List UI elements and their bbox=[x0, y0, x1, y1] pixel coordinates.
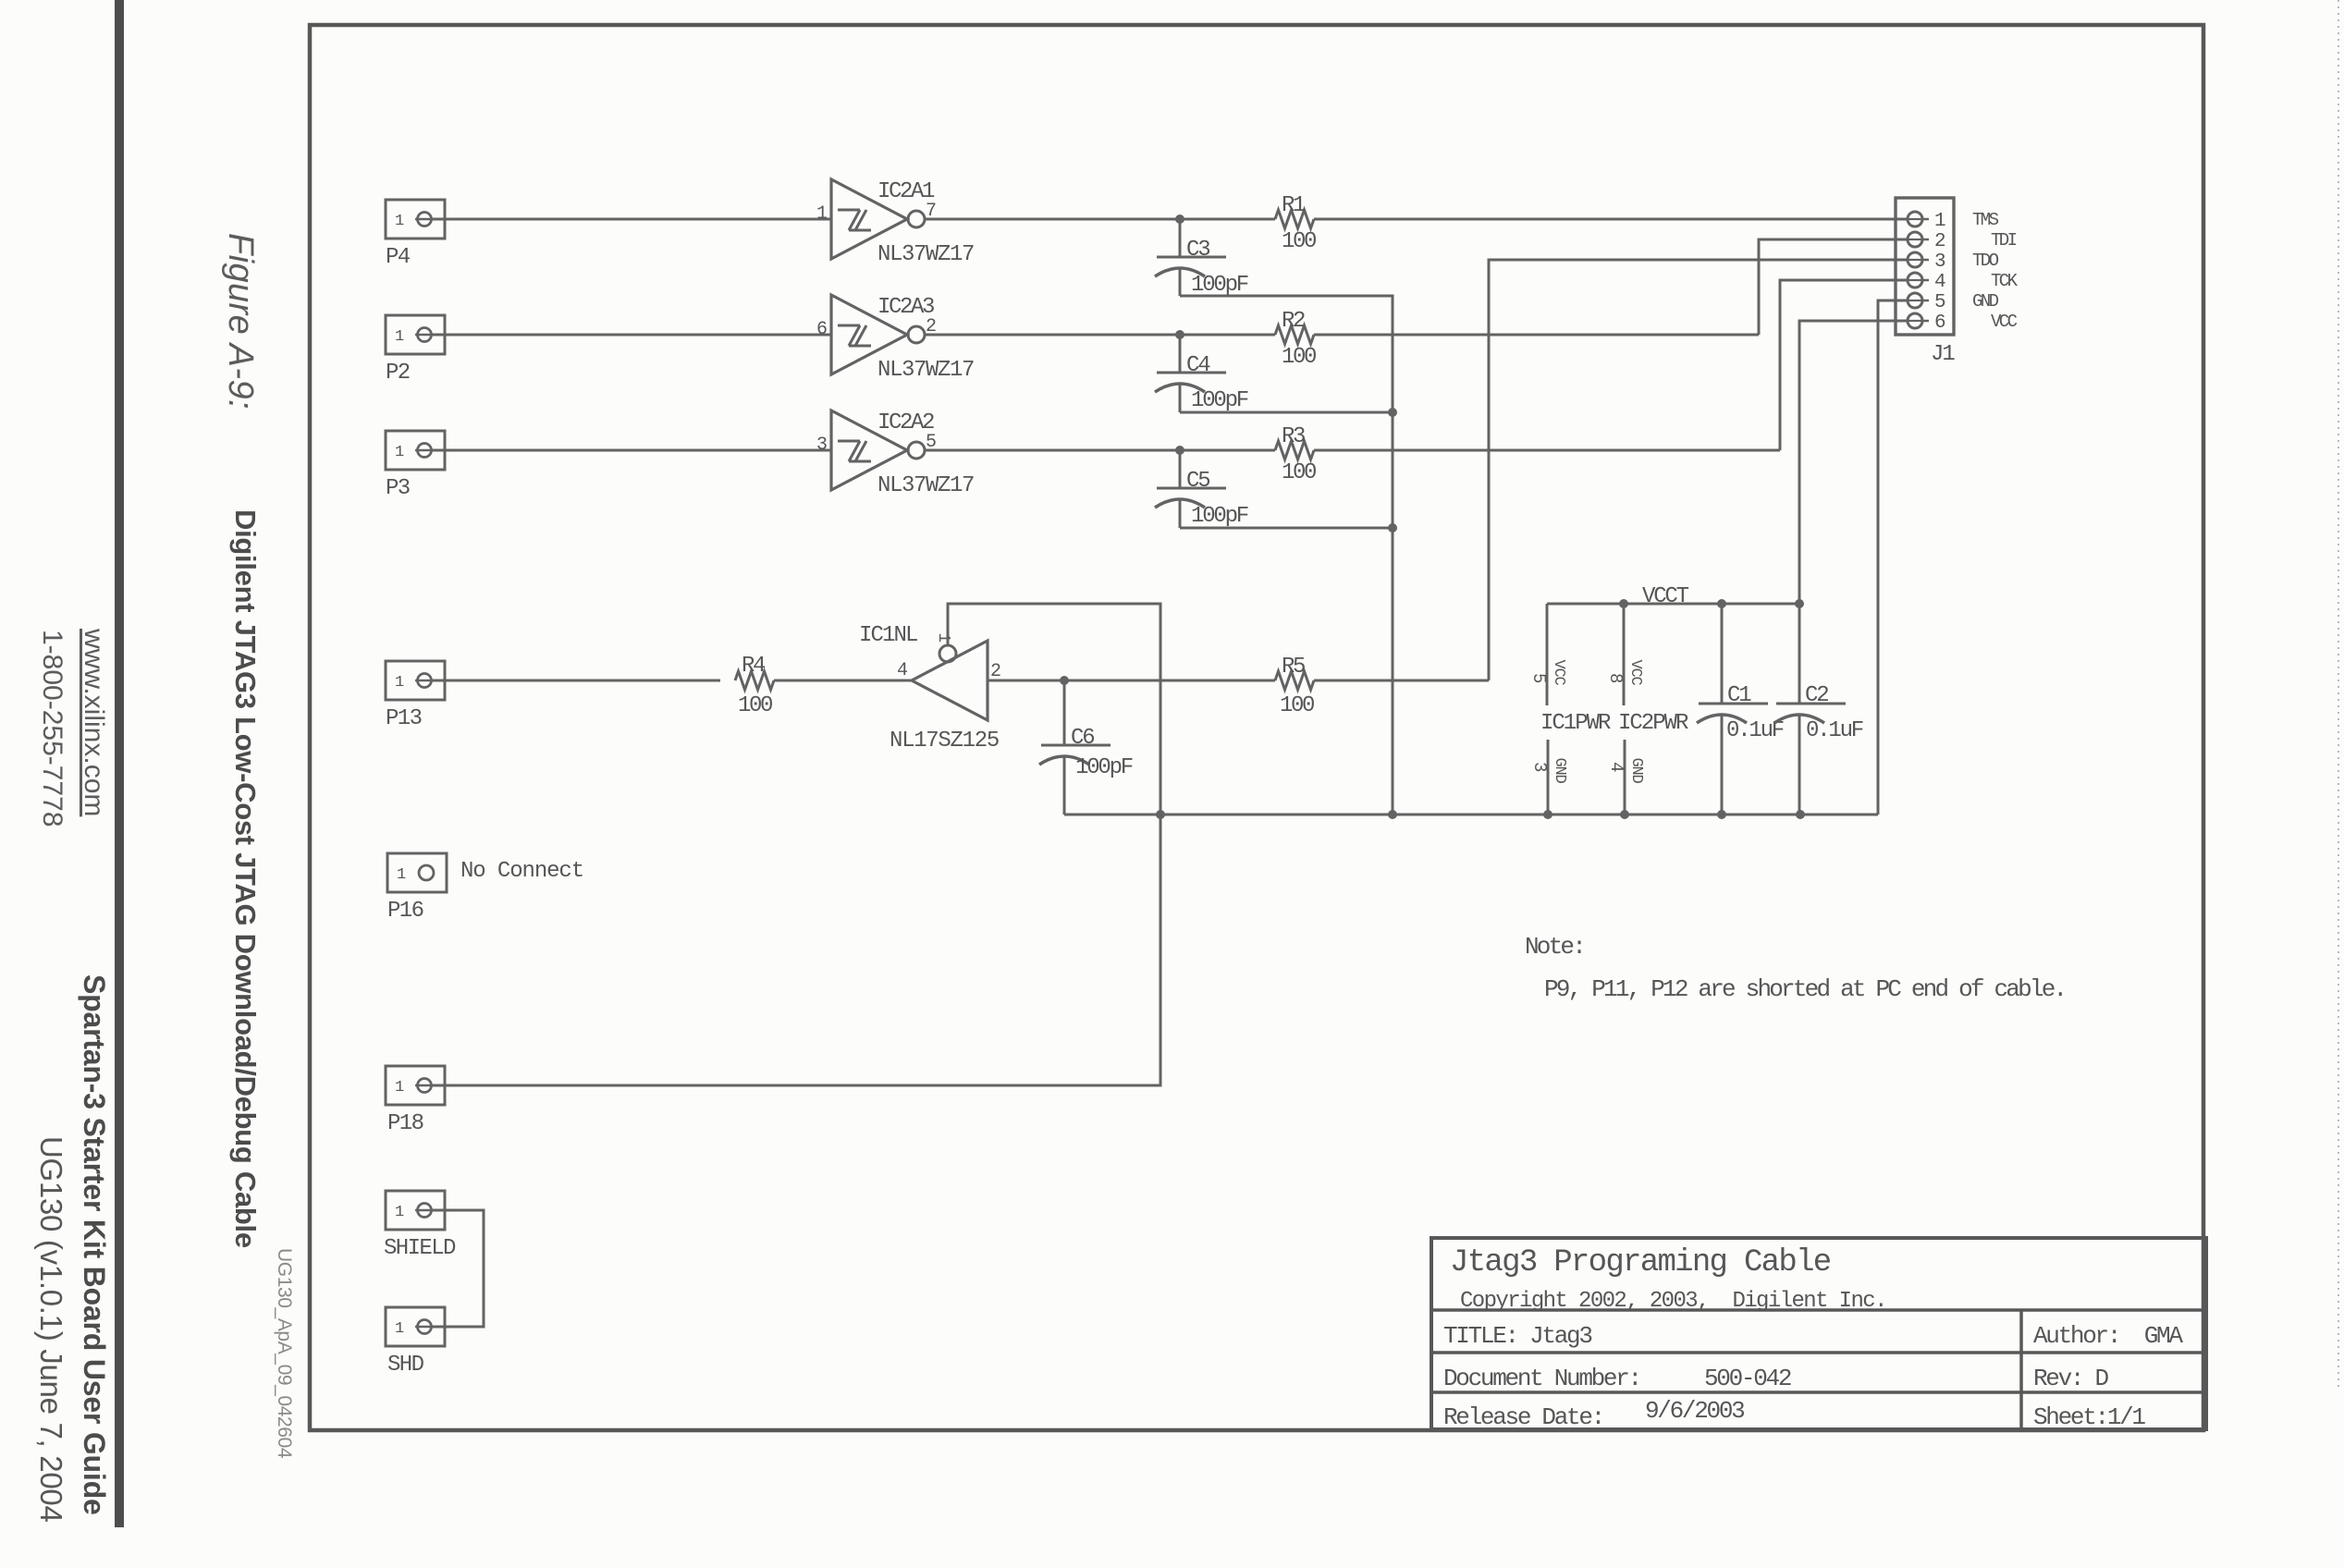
svg-text:R5: R5 bbox=[1282, 655, 1305, 680]
svg-text:P2: P2 bbox=[386, 361, 410, 386]
svg-text:100: 100 bbox=[1282, 345, 1316, 370]
wire IC2A2 output to R3 to J1 pin4 bbox=[925, 449, 1275, 452]
connector P13 bbox=[386, 661, 445, 700]
svg-text:1: 1 bbox=[397, 866, 406, 884]
svg-text:IC1NL: IC1NL bbox=[859, 623, 917, 648]
wire C4 bottom to bus bbox=[1180, 411, 1393, 414]
svg-text:R2: R2 bbox=[1282, 309, 1305, 334]
wire P2 to IC2A3 input bbox=[433, 334, 831, 337]
figure caption: title bold bbox=[228, 509, 262, 1248]
svg-text:No Connect: No Connect bbox=[460, 859, 583, 884]
wire C3 bottom to bus bbox=[1180, 296, 1393, 815]
svg-text:VCC: VCC bbox=[1550, 659, 1567, 685]
svg-text:C1: C1 bbox=[1727, 683, 1751, 708]
svg-text:P18: P18 bbox=[387, 1111, 423, 1136]
svg-text:TDO: TDO bbox=[1972, 251, 1999, 271]
svg-text:Jtag3 Programing Cable: Jtag3 Programing Cable bbox=[1450, 1245, 1831, 1280]
junction node C3/R1 bbox=[1175, 214, 1184, 224]
left margin rule bar bbox=[115, 0, 124, 1527]
J1 pin 6 bbox=[1901, 320, 1929, 323]
svg-text:NL37WZ17: NL37WZ17 bbox=[877, 358, 974, 383]
capacitor C2 0.1uF bbox=[1798, 604, 1801, 704]
wire IC1NL output to R5 bbox=[988, 680, 1275, 682]
power symbol IC2PWR vcc pin 8 bbox=[1623, 604, 1626, 705]
svg-text:Copyright 2002, 2003, Digilen: Copyright 2002, 2003, Digilent Inc. bbox=[1460, 1289, 1886, 1314]
junction gnd/C1 bbox=[1717, 810, 1726, 819]
header phone 1-800-255-7778 bbox=[36, 630, 67, 827]
svg-text:VCCT: VCCT bbox=[1642, 584, 1689, 609]
figure caption: Figure A-9 bbox=[220, 233, 260, 410]
buffer IC1NL NL17SZ125 bbox=[912, 641, 988, 720]
svg-text:4: 4 bbox=[1606, 762, 1626, 772]
svg-text:IC2A1: IC2A1 bbox=[877, 179, 935, 204]
wire SHIELD to SHD bbox=[433, 1210, 484, 1327]
J1 pin 5 bbox=[1901, 300, 1929, 302]
svg-text:8: 8 bbox=[1605, 673, 1626, 683]
svg-text:SHD: SHD bbox=[387, 1353, 424, 1378]
svg-text:Release Date:: Release Date: bbox=[1443, 1403, 1603, 1431]
svg-text:C5: C5 bbox=[1186, 469, 1209, 494]
svg-text:100pF: 100pF bbox=[1075, 755, 1133, 780]
connector P16 (no connect) bbox=[387, 853, 447, 892]
buffer IC2A3 NL37WZ17 bbox=[831, 295, 907, 374]
ground bus wire bbox=[1064, 814, 1878, 816]
connector J1 bbox=[1896, 198, 1954, 335]
svg-text:Rev: D: Rev: D bbox=[2033, 1365, 2109, 1392]
connector P2 bbox=[386, 315, 445, 354]
power symbol IC2PWR gnd pin 4 bbox=[1624, 740, 1626, 815]
svg-text:3: 3 bbox=[1529, 762, 1550, 772]
svg-text:5: 5 bbox=[1934, 292, 1945, 313]
footer: UG130 (v1.0.1) June 7, 2004 bbox=[33, 1136, 68, 1523]
svg-text:Document Number:: Document Number: bbox=[1443, 1365, 1640, 1392]
J1 pin 3 bbox=[1901, 259, 1929, 262]
svg-text:1: 1 bbox=[395, 1320, 404, 1338]
svg-text:IC2PWR: IC2PWR bbox=[1618, 711, 1688, 736]
svg-text:R3: R3 bbox=[1282, 424, 1305, 449]
wire C5 bottom to bus bbox=[1180, 527, 1393, 530]
svg-text:C3: C3 bbox=[1186, 238, 1209, 263]
svg-text:3: 3 bbox=[816, 435, 827, 456]
power symbol IC1PWR vcc pin 5 bbox=[1546, 604, 1549, 705]
junction C4 bus bbox=[1388, 408, 1397, 417]
svg-text:P9, P11, P12 are shorted at PC: P9, P11, P12 are shorted at PC end of ca… bbox=[1544, 975, 2065, 1003]
connector P4 bbox=[386, 200, 445, 239]
J1 pin 4 bbox=[1901, 279, 1929, 282]
svg-text:1: 1 bbox=[395, 674, 404, 692]
svg-text:4: 4 bbox=[897, 660, 907, 681]
svg-text:TDI: TDI bbox=[1991, 230, 2017, 251]
power symbol IC1PWR gnd pin 3 bbox=[1547, 740, 1550, 815]
wire P13 to R4 bbox=[433, 680, 720, 682]
connector SHD bbox=[386, 1307, 445, 1346]
svg-text:GND: GND bbox=[1627, 757, 1645, 783]
svg-text:Author: GMA: Author: GMA bbox=[2033, 1322, 2183, 1350]
svg-text:TCK: TCK bbox=[1991, 271, 2019, 291]
svg-text:P3: P3 bbox=[386, 476, 410, 501]
svg-text:P4: P4 bbox=[386, 245, 411, 270]
resistor R1 100 bbox=[1275, 210, 1314, 228]
junction gnd/IC1PWR bbox=[1543, 810, 1552, 819]
svg-text:6: 6 bbox=[1934, 312, 1945, 334]
junction node C6 top bbox=[1060, 676, 1069, 685]
wire IC2A1 output to R1 to J1 pin1 bbox=[925, 218, 1275, 221]
wire R5 to J1 pin3 bbox=[1314, 680, 1489, 682]
svg-text:1: 1 bbox=[816, 203, 828, 225]
svg-text:0.1uF: 0.1uF bbox=[1806, 718, 1863, 743]
svg-text:Sheet:1/1: Sheet:1/1 bbox=[2033, 1403, 2145, 1431]
junction node C4/R2 bbox=[1175, 330, 1184, 339]
svg-text:TMS: TMS bbox=[1972, 210, 1999, 230]
svg-text:IC1PWR: IC1PWR bbox=[1540, 711, 1611, 736]
J1 pin 1 bbox=[1901, 218, 1929, 221]
svg-text:GND: GND bbox=[1551, 757, 1568, 783]
svg-text:NL17SZ125: NL17SZ125 bbox=[890, 729, 999, 753]
resistor R4 100 bbox=[735, 671, 774, 690]
svg-text:VCC: VCC bbox=[1991, 312, 2018, 332]
junction vcct/C1 bbox=[1717, 599, 1726, 608]
svg-text:1: 1 bbox=[395, 1204, 404, 1221]
svg-text:J1: J1 bbox=[1931, 342, 1955, 367]
svg-text:3: 3 bbox=[1934, 251, 1945, 273]
svg-text:9/6/2003: 9/6/2003 bbox=[1645, 1397, 1744, 1425]
header url www.xilinx.com bbox=[78, 629, 109, 816]
svg-text:R4: R4 bbox=[742, 654, 766, 679]
buffer IC2A1 NL37WZ17 bbox=[831, 179, 907, 259]
svg-text:IC2A2: IC2A2 bbox=[877, 410, 934, 435]
svg-text:2: 2 bbox=[1934, 231, 1945, 252]
buffer IC2A2 NL37WZ17 bbox=[831, 410, 907, 490]
wire IC2A3 output to R2 to J1 pin2 bbox=[925, 334, 1275, 337]
resistor R2 100 bbox=[1275, 325, 1314, 344]
svg-text:IC2A3: IC2A3 bbox=[877, 295, 934, 320]
wire gnd bus to J1 pin5 bbox=[1878, 300, 1908, 815]
svg-text:C2: C2 bbox=[1805, 683, 1828, 708]
svg-text:1: 1 bbox=[395, 1079, 404, 1096]
svg-text:4: 4 bbox=[1934, 272, 1945, 293]
wire R4 to IC1NL input pin4 bbox=[774, 680, 912, 682]
junction gnd/IC2PWR bbox=[1620, 810, 1629, 819]
resistor R3 100 bbox=[1275, 441, 1314, 459]
svg-text:TITLE: Jtag3: TITLE: Jtag3 bbox=[1443, 1322, 1591, 1350]
capacitor C3 100pF bbox=[1179, 219, 1182, 257]
wire P4 to IC2A1 input bbox=[433, 218, 831, 221]
svg-text:6: 6 bbox=[816, 319, 827, 340]
svg-text:100pF: 100pF bbox=[1191, 504, 1248, 529]
connector P3 bbox=[386, 431, 445, 470]
connector SHIELD bbox=[386, 1191, 445, 1230]
resistor R5 100 bbox=[1275, 671, 1314, 690]
svg-text:GND: GND bbox=[1972, 291, 1999, 312]
svg-text:100: 100 bbox=[1282, 460, 1316, 485]
svg-text:1: 1 bbox=[395, 213, 404, 230]
connector P18 bbox=[386, 1066, 445, 1105]
junction vcct/IC2PWR bbox=[1619, 599, 1628, 608]
junction node C5/R3 bbox=[1175, 446, 1184, 455]
svg-text:1: 1 bbox=[934, 632, 952, 642]
J1 pin 2 bbox=[1901, 239, 1929, 241]
svg-text:1: 1 bbox=[395, 444, 404, 461]
wire P3 to IC2A2 input bbox=[433, 449, 831, 452]
junction C5 bus bbox=[1388, 523, 1397, 533]
title block bbox=[1431, 1238, 2206, 1429]
wire VCCT to J1 pin6 bbox=[1799, 321, 1908, 604]
svg-text:C6: C6 bbox=[1071, 726, 1094, 751]
figure file id UG130_ApA_09_042604 bbox=[273, 1248, 295, 1458]
svg-text:100pF: 100pF bbox=[1191, 273, 1248, 298]
svg-text:500-042: 500-042 bbox=[1704, 1365, 1791, 1392]
svg-text:P16: P16 bbox=[387, 899, 423, 924]
capacitor C1 0.1uF bbox=[1721, 604, 1724, 704]
capacitor C4 100pF bbox=[1179, 335, 1182, 373]
svg-text:Note:: Note: bbox=[1525, 933, 1584, 961]
svg-text:SHIELD: SHIELD bbox=[384, 1236, 456, 1261]
svg-text:VCC: VCC bbox=[1626, 659, 1644, 685]
junction gnd/P18/enable bbox=[1156, 810, 1165, 819]
svg-text:5: 5 bbox=[1528, 673, 1549, 683]
svg-text:1: 1 bbox=[1934, 211, 1945, 232]
svg-text:100: 100 bbox=[1282, 229, 1316, 254]
svg-text:R1: R1 bbox=[1282, 193, 1306, 218]
svg-text:C4: C4 bbox=[1186, 353, 1210, 378]
footer: Spartan-3 Starter Kit Board User Guide bbox=[77, 974, 111, 1515]
junction gnd/C-bus bbox=[1388, 810, 1397, 819]
junction vcct/J1 pin6 bbox=[1795, 599, 1804, 608]
svg-text:100pF: 100pF bbox=[1191, 388, 1248, 413]
svg-text:NL37WZ17: NL37WZ17 bbox=[877, 242, 974, 267]
wire IC1NL enable feedback bbox=[433, 604, 1160, 1085]
power net VCCT rail bbox=[1547, 603, 1799, 606]
junction gnd/C2 bbox=[1796, 810, 1805, 819]
svg-text:P13: P13 bbox=[386, 706, 422, 731]
svg-text:100: 100 bbox=[1280, 693, 1314, 718]
capacitor C6 100pF bbox=[1063, 680, 1066, 745]
svg-text:NL37WZ17: NL37WZ17 bbox=[877, 473, 974, 498]
capacitor C5 100pF bbox=[1179, 450, 1182, 488]
svg-text:1: 1 bbox=[395, 328, 404, 346]
svg-text:100: 100 bbox=[738, 693, 772, 718]
